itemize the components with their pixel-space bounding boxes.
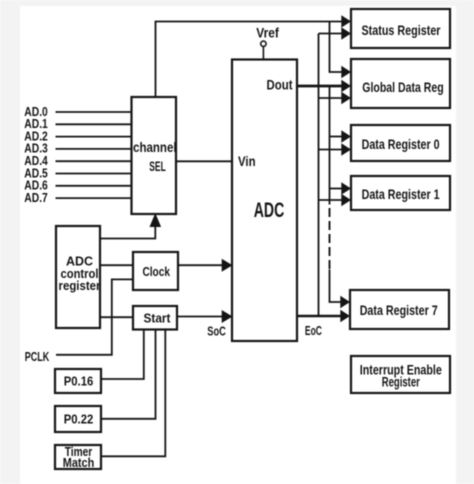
- bus V1 dashed segment (registers 2..6 omitted): [329, 208, 331, 269]
- svg-text:Vref: Vref: [256, 25, 279, 41]
- svg-text:Global Data Reg: Global Data Reg: [362, 79, 444, 95]
- wire V1 stub to Data Register 0 (top arrow): [330, 136, 342, 138]
- block Data Register 0: [351, 125, 450, 161]
- svg-text:Status Register: Status Register: [362, 22, 441, 38]
- arrow Start into ADC: [222, 310, 233, 323]
- wire ADC control register to Clock: [100, 264, 133, 266]
- block Start: [133, 306, 177, 330]
- wire P0.22 to Start: [101, 330, 156, 419]
- svg-text:Dout: Dout: [267, 78, 293, 93]
- wire P0.16 to Start: [101, 330, 144, 380]
- svg-text:Data Register 1: Data Register 1: [362, 186, 440, 202]
- input AD.5: [24, 165, 131, 180]
- label EoC: [305, 323, 322, 338]
- label SoC: [207, 324, 226, 339]
- block Clock: [133, 252, 178, 290]
- bus V1 lower solid to Data Register 7: [330, 270, 341, 303]
- svg-text:Data Register 7: Data Register 7: [360, 302, 438, 318]
- arrow into Data Register 0 (top): [341, 130, 351, 142]
- svg-text:P0.16: P0.16: [64, 374, 94, 389]
- input AD.2: [24, 128, 131, 143]
- svg-text:Match: Match: [63, 456, 95, 470]
- svg-text:Register: Register: [382, 374, 421, 389]
- wire Vin from channel SEL to ADC: [176, 160, 232, 162]
- svg-text:P0.22: P0.22: [64, 411, 94, 426]
- arrow into Data Register 0 (bottom): [341, 143, 351, 155]
- wire V1 stub to Data Register 1 (top arrow): [330, 188, 342, 190]
- block Data Register 1: [351, 176, 450, 210]
- svg-text:Data Register 0: Data Register 0: [362, 136, 440, 152]
- svg-text:EoC: EoC: [305, 323, 322, 338]
- svg-text:SEL: SEL: [149, 159, 166, 174]
- block Interrupt Enable Register: [351, 356, 450, 393]
- bus V1 upper (channel select branch): [330, 22, 342, 73]
- arrow Clock into ADC: [222, 259, 233, 272]
- arrow up into channel SEL: [150, 213, 162, 227]
- svg-text:SoC: SoC: [207, 324, 226, 339]
- block channel SEL: [132, 97, 177, 214]
- svg-text:channel: channel: [133, 140, 177, 155]
- wire V2 stub to Data Register 1 (bottom arrow): [319, 199, 342, 201]
- block Data Register 7: [350, 290, 449, 329]
- input AD.3: [24, 141, 131, 156]
- input AD.6: [24, 178, 131, 193]
- wire ADC control register to Start: [100, 316, 133, 318]
- svg-text:ADC: ADC: [254, 199, 285, 222]
- svg-text:PCLK: PCLK: [25, 349, 50, 364]
- block Status Register: [351, 9, 450, 48]
- block ADC: [232, 60, 297, 342]
- arrow into Status Register (top): [341, 15, 351, 27]
- arrow into Global Data Reg (top): [341, 66, 351, 78]
- svg-text:AD.7: AD.7: [24, 190, 48, 205]
- svg-text:Clock: Clock: [142, 264, 170, 279]
- terminal Vref: [256, 25, 279, 60]
- wire Timer Match to Start: [101, 330, 165, 457]
- block P0.22: [55, 406, 101, 432]
- input AD.0: [24, 104, 131, 119]
- input AD.4: [24, 153, 131, 168]
- svg-text:Start: Start: [144, 310, 172, 325]
- bus V2 (EoC/status vertical): [318, 34, 320, 317]
- input AD.7: [24, 190, 131, 205]
- wire Clock to ADC: [178, 264, 222, 266]
- wire ADC control register to channel SEL: [100, 226, 155, 239]
- wire PCLK to Clock: [56, 279, 133, 354]
- arrow into Data Register 7 (bottom): [340, 310, 350, 322]
- input AD.1: [24, 116, 131, 131]
- wire Dout data bus: [297, 85, 342, 88]
- block Global Data Reg: [351, 59, 450, 108]
- svg-text:register: register: [59, 278, 101, 293]
- arrow into Data Register 1 (top): [341, 182, 351, 194]
- block Timer Match: [55, 445, 101, 470]
- wire EoC to Data Register 7: [297, 315, 341, 318]
- arrow into Data Register 7 (top): [340, 296, 350, 308]
- block ADC control register: [56, 226, 101, 328]
- wire V2 stub to Global Data Reg (bottom arrow): [319, 97, 342, 99]
- arrow into Data Register 1 (bottom): [341, 194, 351, 206]
- wire V2 stub to Status Register (bottom arrow): [319, 33, 342, 35]
- arrow into Global Data Reg (middle): [341, 80, 351, 92]
- label PCLK: [25, 349, 50, 364]
- arrow into Global Data Reg (bottom): [341, 92, 351, 104]
- wire V2 stub to Data Register 0 (bottom arrow): [319, 149, 342, 151]
- block P0.16: [55, 369, 101, 393]
- wire Start to ADC (SoC): [177, 316, 222, 318]
- svg-text:Vin: Vin: [238, 154, 256, 169]
- arrow into Status Register (bottom): [341, 27, 351, 39]
- bus V1 lower (Dout branch down): [329, 86, 331, 205]
- wire channel select to Status Register: [156, 22, 342, 98]
